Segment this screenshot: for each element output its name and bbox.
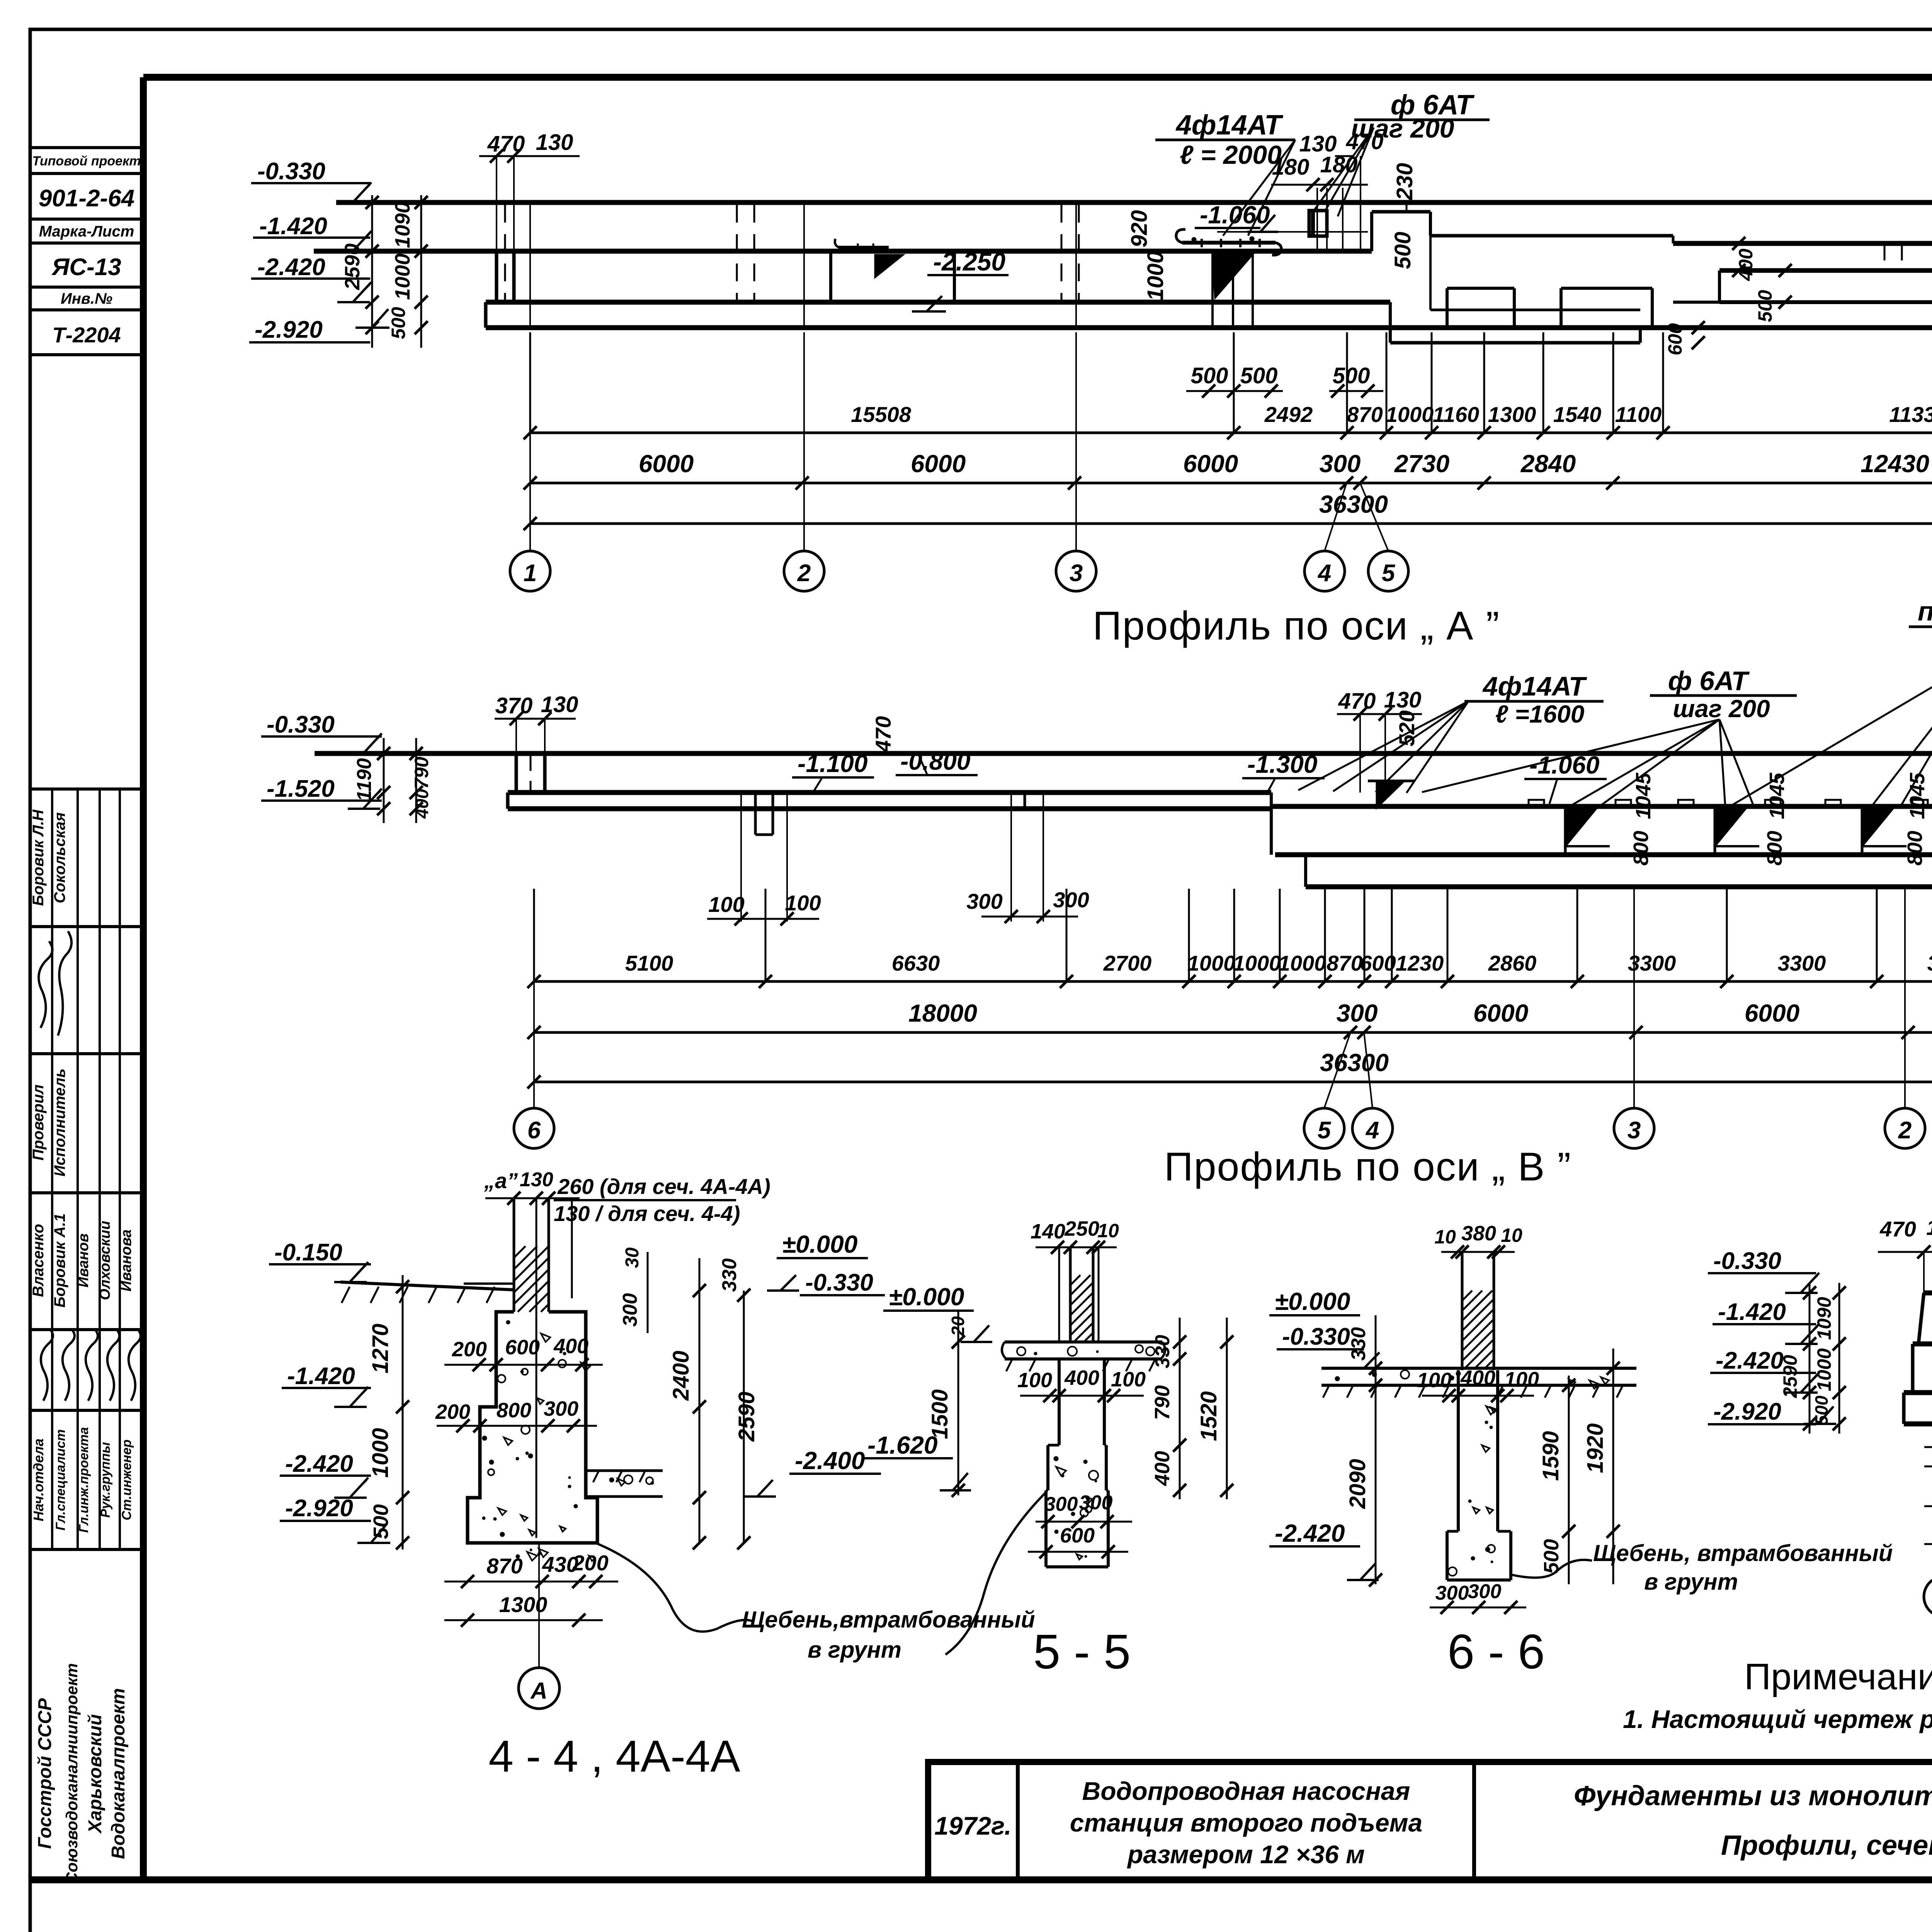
svg-text:3300: 3300: [1778, 951, 1826, 975]
svg-text:130: 130: [536, 130, 573, 155]
svg-text:Гл.специалист: Гл.специалист: [53, 1429, 68, 1531]
svg-text:1590: 1590: [1538, 1431, 1563, 1481]
svg-text:250: 250: [1064, 1217, 1099, 1240]
svg-text:1000: 1000: [1386, 402, 1434, 427]
svg-text:6000: 6000: [1473, 999, 1528, 1027]
svg-text:6000: 6000: [1183, 450, 1238, 478]
svg-text:100: 100: [1504, 1368, 1539, 1391]
svg-text:2840: 2840: [1520, 450, 1576, 478]
section 4-4 pier speckle: [506, 1320, 510, 1324]
svg-text:-0.330: -0.330: [1282, 1323, 1350, 1350]
svg-text:600: 600: [1060, 1524, 1095, 1547]
svg-text:1190: 1190: [353, 758, 376, 801]
svg-text:500: 500: [1191, 363, 1228, 388]
svg-text:-2.420: -2.420: [1716, 1347, 1784, 1374]
svg-text:500: 500: [1811, 1395, 1832, 1425]
svg-text:180: 180: [1272, 155, 1310, 180]
profile B slab left edge: [506, 793, 510, 809]
section 4-4 right ledge: [586, 1469, 663, 1472]
svg-text:Профиль по оси „ В ”: Профиль по оси „ В ”: [1164, 1145, 1571, 1189]
svg-text:4: 4: [1317, 560, 1331, 587]
svg-text:2090: 2090: [1345, 1459, 1370, 1509]
svg-text:500: 500: [369, 1504, 393, 1539]
svg-text:по 4ф14АТ: по 4ф14АТ: [1918, 596, 1932, 626]
axis circle 5: [1368, 551, 1408, 591]
svg-text:-0.800: -0.800: [900, 747, 970, 775]
svg-text:300: 300: [544, 1397, 578, 1420]
section 6-6 column: [1461, 1252, 1464, 1370]
section 6-6 ground slab: [1321, 1367, 1636, 1370]
svg-text:2492: 2492: [1264, 402, 1313, 427]
section 5-5 right vertical dims: [1179, 1318, 1181, 1499]
svg-text:1: 1: [524, 560, 537, 587]
svg-text:330: 330: [1347, 1327, 1370, 1361]
svg-text:Союзводоканалниипроект: Союзводоканалниипроект: [63, 1663, 81, 1884]
svg-text:1000: 1000: [1278, 951, 1327, 975]
svg-text:100: 100: [1111, 1368, 1146, 1391]
axis circle B6: [514, 1108, 554, 1148]
svg-text:330: 330: [718, 1259, 741, 1292]
section 4-4 rubble below footing: [539, 1549, 548, 1557]
svg-text:6000: 6000: [911, 450, 966, 478]
svg-text:300: 300: [1044, 1493, 1078, 1515]
svg-text:1000: 1000: [391, 253, 414, 300]
section 6-6 pier: [1457, 1370, 1460, 1531]
svg-text:901-2-64: 901-2-64: [39, 185, 134, 212]
svg-text:2590: 2590: [734, 1391, 759, 1442]
section 4-4 right vertical dims: [699, 1258, 701, 1543]
svg-text:1090: 1090: [391, 202, 414, 248]
svg-text:180: 180: [1320, 152, 1358, 177]
svg-text:2400: 2400: [668, 1350, 694, 1401]
svg-text:15508: 15508: [851, 402, 912, 427]
svg-text:470: 470: [1346, 129, 1384, 154]
section 6-6 column hatch: [1462, 1291, 1472, 1301]
axis circle 2: [784, 551, 824, 591]
svg-text:1090: 1090: [1813, 1297, 1835, 1340]
svg-text:800: 800: [1629, 831, 1653, 866]
svg-text:3300: 3300: [1628, 951, 1676, 975]
svg-text:36300: 36300: [1320, 1049, 1389, 1077]
svg-text:800: 800: [1903, 831, 1927, 866]
svg-text:Власенко: Власенко: [30, 1224, 47, 1297]
svg-text:-0.330: -0.330: [805, 1269, 873, 1296]
svg-text:400: 400: [412, 789, 432, 819]
svg-text:300: 300: [1468, 1580, 1502, 1603]
svg-text:330: 330: [1151, 1335, 1174, 1369]
svg-text:870: 870: [1347, 402, 1383, 427]
svg-text:100: 100: [1417, 1369, 1452, 1392]
svg-text:140: 140: [1031, 1220, 1065, 1243]
svg-text:100: 100: [785, 891, 821, 915]
profile A axis leaders: [529, 332, 531, 551]
section 5-5 column: [1058, 1247, 1060, 1342]
svg-text:1000: 1000: [1233, 951, 1281, 975]
svg-text:230: 230: [1392, 163, 1417, 201]
svg-text:600: 600: [505, 1336, 540, 1359]
section 5-5 rubble leader: [946, 1492, 1046, 1655]
axis circle V: [1924, 1577, 1932, 1617]
profile B dim row 1: [534, 980, 1932, 983]
svg-text:-1.520: -1.520: [267, 776, 335, 802]
section 4-4 mid dim lines: [647, 1252, 649, 1333]
svg-text:5100: 5100: [625, 951, 673, 975]
profile A dim row 2: [530, 482, 1932, 485]
svg-text:-1.420: -1.420: [259, 213, 327, 240]
svg-text:Харьковский: Харьковский: [85, 1714, 105, 1834]
profile 1 left vertical dims: [1809, 1283, 1811, 1434]
svg-text:1540: 1540: [1553, 402, 1602, 427]
svg-text:300: 300: [1337, 999, 1378, 1027]
section 6-6 left vertical dim: [1375, 1315, 1377, 1584]
svg-text:500: 500: [1240, 363, 1278, 388]
svg-text:4ф14АТ: 4ф14АТ: [1482, 671, 1587, 701]
svg-text:6: 6: [527, 1117, 541, 1144]
inner frame top: [143, 74, 1932, 81]
profile A right step verticals: [1718, 270, 1721, 302]
svg-text:5: 5: [1318, 1117, 1332, 1144]
svg-text:870: 870: [486, 1554, 522, 1578]
profile 1 top band: [1924, 1291, 1932, 1296]
svg-text:4ф14АТ: 4ф14АТ: [1175, 110, 1284, 141]
profile A pit2 rebar bar: [1182, 241, 1275, 245]
profile A solid columns mid: [1406, 202, 1408, 212]
svg-text:1000: 1000: [1813, 1348, 1835, 1391]
svg-text:300: 300: [1079, 1492, 1113, 1514]
signature squiggle 1: [58, 931, 71, 1036]
svg-text:400: 400: [1460, 1366, 1495, 1389]
profile A left wall axis dashed: [504, 205, 506, 302]
profile B pit 1: [754, 793, 757, 835]
signature squiggle 2: [39, 941, 52, 1028]
profile A slab left edge: [484, 302, 488, 328]
svg-text:Гл.инж.проекта: Гл.инж.проекта: [77, 1427, 91, 1533]
svg-text:920: 920: [1127, 210, 1152, 248]
profile A small step rect: [1309, 211, 1327, 236]
svg-text:Щебень, втрамбованный: Щебень, втрамбованный: [1593, 1540, 1893, 1566]
section 5-5 column hatch: [1070, 1275, 1080, 1285]
svg-text:1972г.: 1972г.: [934, 1811, 1012, 1840]
svg-text:Щебень,втрамбованный: Щебень,втрамбованный: [742, 1607, 1035, 1633]
signature squiggles row: [41, 1329, 53, 1401]
svg-text:ЯС-13: ЯС-13: [51, 254, 121, 281]
profile B right slab bottom: [1275, 852, 1932, 857]
section 5-5 floor slab: [1005, 1340, 1162, 1344]
svg-text:470: 470: [487, 131, 525, 156]
profile B pedestals: [1565, 810, 1595, 846]
svg-text:600: 600: [1360, 951, 1396, 975]
profile A thin verticals under dims: [1316, 188, 1318, 250]
profile B dim row 3: [534, 1081, 1932, 1083]
section 6-6 right vertical dims: [1568, 1376, 1570, 1584]
svg-text:470: 470: [1338, 689, 1376, 714]
profile B dim row 2: [534, 1031, 1932, 1034]
svg-text:380: 380: [1461, 1222, 1496, 1245]
svg-text:600: 600: [1664, 323, 1686, 355]
svg-text:1000: 1000: [368, 1428, 393, 1478]
rubble leader 4-4: [597, 1544, 752, 1632]
svg-text:-1.420: -1.420: [287, 1363, 355, 1389]
svg-text:Иванов: Иванов: [75, 1233, 92, 1287]
svg-text:130: 130: [520, 1168, 553, 1191]
svg-text:800: 800: [1763, 831, 1786, 866]
svg-text:2590: 2590: [341, 243, 364, 290]
svg-text:500: 500: [1754, 290, 1776, 322]
svg-text:-2.420: -2.420: [1275, 1519, 1345, 1547]
svg-text:-2.920: -2.920: [1713, 1398, 1781, 1425]
svg-text:3: 3: [1070, 560, 1083, 587]
profile B top line: [315, 751, 1932, 756]
profile A pit black wedge: [875, 255, 903, 277]
profile A left wall: [495, 251, 498, 302]
profile B axis leaders: [533, 889, 535, 1108]
svg-text:12430: 12430: [1861, 450, 1929, 478]
signature table verticals: [51, 789, 53, 1549]
svg-text:-0.330: -0.330: [257, 158, 325, 185]
svg-text:400: 400: [1064, 1366, 1099, 1389]
svg-text:10: 10: [1501, 1225, 1522, 1246]
svg-text:2860: 2860: [1488, 951, 1537, 975]
svg-text:1920: 1920: [1583, 1423, 1608, 1473]
svg-text:10: 10: [1097, 1220, 1119, 1242]
svg-text:1000: 1000: [1143, 251, 1168, 301]
svg-text:1520: 1520: [1196, 1391, 1221, 1441]
svg-text:±0.000: ±0.000: [889, 1283, 964, 1311]
profile B right slab top: [1271, 804, 1932, 809]
svg-text:-2.400: -2.400: [795, 1447, 865, 1475]
svg-text:800: 800: [497, 1399, 531, 1422]
svg-text:400: 400: [553, 1335, 588, 1358]
profile A pit walls: [829, 251, 832, 302]
svg-text:1. Настоящий чертеж рассматр: 1. Настоящий чертеж рассматривать совмес…: [1623, 1705, 1932, 1733]
sidebar header boxes: [30, 146, 143, 149]
profile B slab bottom line left: [508, 806, 1271, 811]
section 4-4 wall hatch: [514, 1246, 526, 1258]
svg-text:300: 300: [1053, 888, 1089, 912]
svg-text:1160: 1160: [1433, 402, 1479, 427]
svg-text:6000: 6000: [1745, 999, 1799, 1027]
svg-text:470: 470: [871, 716, 895, 752]
svg-text:Иванова: Иванова: [118, 1230, 134, 1292]
axis circle 3: [1056, 551, 1096, 591]
svg-text:1100: 1100: [1615, 402, 1662, 427]
svg-text:-1.420: -1.420: [1718, 1299, 1786, 1325]
inner frame left: [140, 77, 147, 1880]
svg-text:370: 370: [495, 693, 533, 718]
svg-text:в грунт: в грунт: [808, 1637, 901, 1663]
profile A left vertical dim lines: [371, 195, 373, 348]
svg-text:Марка-Лист: Марка-Лист: [39, 223, 134, 240]
svg-text:-0.150: -0.150: [274, 1239, 342, 1266]
svg-text:Профиль по оси „ А ”: Профиль по оси „ А ”: [1093, 604, 1500, 648]
svg-text:Примечания:: Примечания:: [1744, 1656, 1932, 1697]
profile B right part edges: [1270, 793, 1273, 855]
profile A dashed columns 2: [1061, 205, 1063, 302]
profile A slab top line: [486, 300, 1390, 305]
svg-text:размером 12 ×36 м: размером 12 ×36 м: [1127, 1840, 1365, 1869]
profile A extension verticals to dims: [529, 332, 531, 433]
profile 1 slab: [1904, 1390, 1932, 1395]
svg-text:2: 2: [1898, 1117, 1912, 1144]
svg-text:11330: 11330: [1889, 402, 1932, 427]
svg-text:3: 3: [1628, 1117, 1641, 1144]
svg-text:Боровик А.1: Боровик А.1: [51, 1213, 68, 1308]
svg-text:200: 200: [435, 1400, 470, 1423]
title block outline: [928, 1762, 1932, 1880]
svg-text:130: 130: [541, 692, 578, 717]
svg-text:станция второго подъема: станция второго подъема: [1070, 1808, 1422, 1837]
svg-text:Проверил: Проверил: [30, 1084, 47, 1160]
svg-text:2700: 2700: [1103, 951, 1152, 975]
profile A top line: [336, 200, 1932, 205]
svg-text:300: 300: [966, 889, 1002, 913]
svg-text:36300: 36300: [1319, 490, 1388, 518]
axis circle 4: [1304, 551, 1345, 591]
svg-text:-0.330: -0.330: [267, 711, 335, 738]
axis circle B2: [1885, 1108, 1925, 1148]
svg-text:Боровик Л.Н: Боровик Л.Н: [30, 809, 47, 906]
svg-text:-1.300: -1.300: [1247, 750, 1317, 778]
svg-text:5: 5: [1382, 560, 1396, 587]
svg-text:Т-2204: Т-2204: [52, 323, 121, 347]
svg-text:100: 100: [708, 892, 744, 917]
axis circle 1: [510, 551, 550, 591]
svg-text:Ст.инженер: Ст.инженер: [119, 1439, 134, 1520]
svg-text:1270: 1270: [368, 1323, 393, 1373]
profile A right step line upper: [1673, 241, 1932, 246]
svg-text:130: 130: [1926, 1215, 1932, 1240]
section 4-4 wall verticals: [513, 1198, 515, 1312]
svg-text:400: 400: [1151, 1451, 1174, 1486]
svg-text:3300: 3300: [1927, 951, 1932, 975]
svg-text:18000: 18000: [908, 999, 977, 1027]
profile A dim row 3: [530, 522, 1932, 525]
section 4-4 floor line right stub: [464, 1282, 514, 1285]
svg-text:500: 500: [1333, 363, 1370, 388]
section 4-4 ground line: [340, 1282, 514, 1290]
svg-text:±0.000: ±0.000: [1275, 1287, 1350, 1315]
svg-text:1300: 1300: [499, 1592, 548, 1617]
profile B left vertical dim lines: [383, 738, 385, 823]
svg-text:Водоканалпроект: Водоканалпроект: [108, 1688, 129, 1859]
profile A dim row 1: [530, 432, 1932, 434]
svg-text:Типовой проект: Типовой проект: [32, 154, 141, 168]
profile A slab bottom line: [486, 325, 1932, 330]
svg-text:-2.420: -2.420: [257, 254, 325, 281]
profile B slab top line left: [508, 790, 1271, 795]
profile A step mid: [1372, 210, 1430, 214]
svg-text:-1.060: -1.060: [1529, 751, 1599, 779]
svg-text:1000: 1000: [1187, 951, 1236, 975]
profile A pit2 wedge: [1213, 254, 1253, 298]
svg-text:130 / для сеч. 4-4): 130 / для сеч. 4-4): [554, 1201, 740, 1226]
svg-text:Олховский: Олховский: [97, 1221, 113, 1300]
svg-text:790: 790: [1151, 1385, 1174, 1420]
svg-text:ℓ =1600: ℓ =1600: [1495, 700, 1585, 728]
svg-text:790: 790: [411, 757, 432, 789]
svg-text:470: 470: [1879, 1217, 1916, 1241]
svg-text:Госстрой СССР: Госстрой СССР: [35, 1698, 55, 1849]
svg-text:2730: 2730: [1394, 450, 1449, 478]
svg-text:870: 870: [1327, 951, 1362, 975]
title block verticals: [1016, 1762, 1020, 1880]
svg-text:Инв.№: Инв.№: [61, 290, 112, 307]
svg-text:-0.330: -0.330: [1713, 1248, 1781, 1274]
axis circle B3: [1614, 1108, 1654, 1148]
svg-text:±0.000: ±0.000: [782, 1230, 857, 1258]
profile B left wall: [515, 753, 518, 793]
svg-text:-1.100: -1.100: [798, 750, 867, 777]
svg-text:Рук.группы: Рук.группы: [98, 1442, 113, 1518]
svg-text:Сокольская: Сокольская: [51, 812, 68, 903]
profile A dashed columns 1: [736, 205, 738, 302]
svg-text:А: А: [530, 1678, 547, 1704]
section 4-4 axis circle A: [519, 1668, 560, 1709]
profile B extension verticals: [533, 889, 535, 981]
svg-text:-2.420: -2.420: [285, 1451, 353, 1477]
svg-text:5 - 5: 5 - 5: [1033, 1624, 1131, 1679]
axis circle B4: [1352, 1108, 1393, 1148]
svg-text:260 (для сеч. 4А-4А): 260 (для сеч. 4А-4А): [557, 1174, 770, 1199]
svg-text:ℓ = 2000: ℓ = 2000: [1180, 140, 1282, 170]
profile A pit2 walls: [1211, 253, 1214, 327]
svg-text:100: 100: [1017, 1369, 1052, 1392]
svg-text:6000: 6000: [639, 450, 694, 478]
section 5-5 pier: [1058, 1359, 1061, 1445]
svg-text:6 - 6: 6 - 6: [1447, 1624, 1545, 1679]
svg-text:2590: 2590: [1779, 1355, 1801, 1398]
svg-text:200: 200: [452, 1338, 487, 1361]
svg-text:Водопроводная насосная: Водопроводная насосная: [1082, 1777, 1410, 1805]
svg-text:300: 300: [619, 1293, 641, 1327]
section 4-4 left vertical dim: [402, 1275, 404, 1549]
axis circle B5: [1304, 1108, 1344, 1148]
profile A mid pier blocks: [1446, 288, 1449, 328]
svg-text:ф 6АТ: ф 6АТ: [1668, 666, 1750, 696]
svg-text:1300: 1300: [1488, 402, 1536, 427]
profile B wedge left: [1377, 781, 1404, 808]
profile A pit rebar hook: [838, 246, 889, 249]
section 4-4 top dim line: [485, 1197, 580, 1199]
profile B right footing bottom: [1306, 884, 1932, 889]
signature table lines: [30, 787, 143, 791]
profile A dashed columns right 1: [1884, 245, 1886, 270]
svg-text:„а”: „а”: [484, 1168, 518, 1193]
section 5-5 left vertical dim: [957, 1311, 959, 1495]
profile A axis verticals in body: [529, 202, 531, 328]
svg-text:10: 10: [1434, 1226, 1456, 1248]
svg-text:500: 500: [1390, 232, 1415, 269]
inner frame bottom: [30, 1876, 1932, 1883]
svg-text:1230: 1230: [1396, 951, 1444, 975]
profile A right step line mid: [1719, 268, 1932, 273]
svg-text:1500: 1500: [927, 1389, 952, 1439]
svg-text:2: 2: [797, 560, 811, 587]
svg-text:-2.920: -2.920: [255, 316, 323, 343]
svg-text:Нач.отдела: Нач.отдела: [31, 1439, 46, 1521]
svg-text:шаг 200: шаг 200: [1673, 695, 1770, 723]
profile A second line: [314, 249, 1372, 254]
profile B pit 2 verticals: [1010, 793, 1012, 922]
svg-text:200: 200: [572, 1551, 608, 1575]
profile 1 second band: [1913, 1342, 1932, 1347]
svg-text:4 - 4 , 4А-4А: 4 - 4 , 4А-4А: [488, 1731, 740, 1781]
svg-text:300: 300: [1320, 450, 1361, 478]
svg-text:в грунт: в грунт: [1644, 1569, 1738, 1595]
svg-text:-2.920: -2.920: [285, 1495, 353, 1522]
svg-text:Исполнитель: Исполнитель: [51, 1068, 68, 1177]
section 6-6 rubble leader: [1511, 1560, 1592, 1578]
